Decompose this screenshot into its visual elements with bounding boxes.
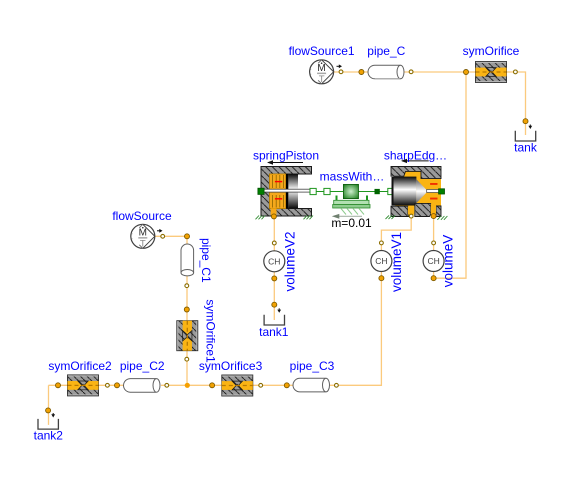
svg-text:pipe_C3: pipe_C3 [290, 359, 335, 373]
svg-text:flowSource: flowSource [112, 209, 172, 223]
svg-text:tank1: tank1 [259, 325, 289, 339]
svg-text:tank2: tank2 [34, 429, 64, 443]
svg-text:pipe_C1: pipe_C1 [199, 238, 213, 283]
svg-text:massWith…: massWith… [320, 170, 385, 184]
svg-text:symOrifice1: symOrifice1 [204, 299, 218, 363]
svg-text:m=0.01: m=0.01 [331, 216, 372, 230]
svg-text:symOrifice: symOrifice [463, 44, 520, 58]
svg-text:volumeV2: volumeV2 [282, 231, 297, 291]
svg-text:pipe_C2: pipe_C2 [120, 359, 165, 373]
svg-text:pipe_C: pipe_C [367, 44, 405, 58]
svg-text:flowSource1: flowSource1 [289, 44, 355, 58]
svg-text:sharpEdg…: sharpEdg… [384, 149, 447, 163]
svg-text:volumeV: volumeV [440, 235, 455, 288]
svg-text:tank: tank [514, 141, 538, 155]
svg-text:symOrifice2: symOrifice2 [48, 359, 112, 373]
svg-text:volumeV1: volumeV1 [389, 232, 404, 292]
svg-text:springPiston: springPiston [253, 149, 319, 163]
